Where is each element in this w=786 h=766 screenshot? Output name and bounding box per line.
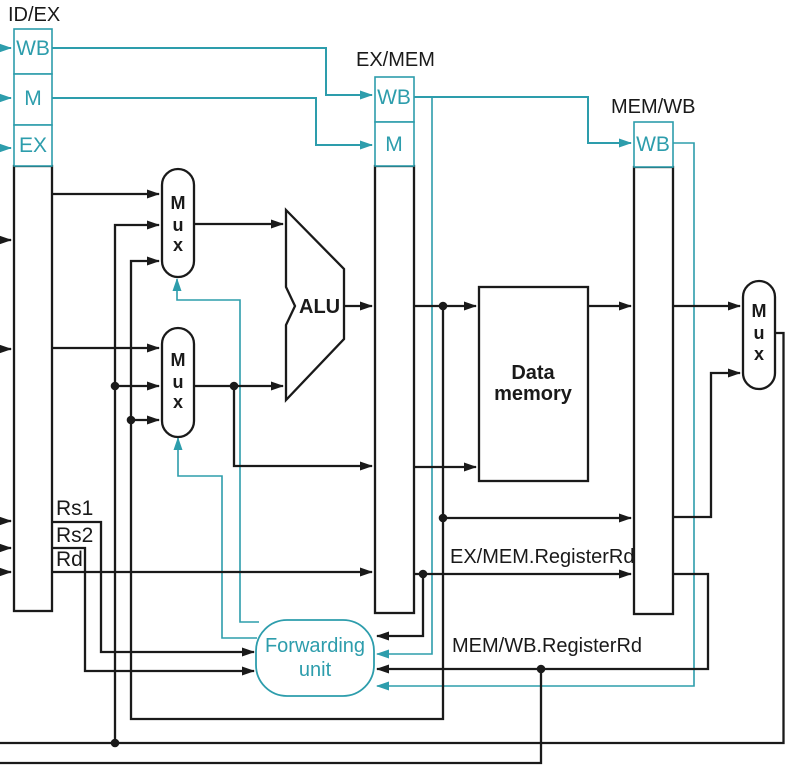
- wire: EX/MEM forward branch to Mux2: [131, 419, 159, 421]
- forwarding unit: [256, 620, 374, 696]
- svg-text:Rs2: Rs2: [56, 524, 93, 547]
- mux Mux1 (ALU input A): [162, 169, 194, 277]
- wire: Data memory read data to MEM/WB: [588, 305, 631, 307]
- svg-text:EX: EX: [19, 134, 47, 157]
- wire: ID/EX.WB to EX/MEM.WB (teal): [52, 48, 372, 95]
- wire: forwarding unit control to Mux1 (teal): [177, 279, 259, 622]
- svg-text:unit: unit: [299, 659, 332, 681]
- pipeline register EX/MEM: [375, 77, 414, 613]
- mux WB Mux (write-back): [743, 281, 775, 389]
- wire: forwarding unit control to Mux2 (teal): [178, 438, 257, 638]
- wire: Mux1 output to ALU: [194, 223, 283, 225]
- svg-text:M: M: [385, 133, 403, 156]
- junction: MEM/WB forward at bottom bus: [111, 739, 120, 748]
- wire: Mux2 output branch to EX/MEM store data: [234, 386, 372, 466]
- wire: Mux2 output to ALU: [194, 385, 283, 387]
- wire: ID/EX.M to EX/MEM.M (teal): [52, 98, 372, 145]
- wire: EX/MEM RegWrite to forwarding unit (teal): [377, 97, 432, 654]
- junction: EX/MEM.RegisterRd branch: [419, 570, 428, 579]
- svg-text:WB: WB: [377, 86, 411, 109]
- svg-text:Rs1: Rs1: [56, 497, 93, 520]
- svg-text:WB: WB: [636, 133, 670, 156]
- data memory: [479, 287, 588, 481]
- wire: EX/MEM forwarding path to muxes: [131, 261, 443, 719]
- wire: ID/EX read data 2 to Mux2: [52, 347, 159, 349]
- svg-text:u: u: [754, 323, 765, 343]
- ALU U1: [286, 210, 344, 400]
- svg-text:Rd: Rd: [56, 548, 83, 571]
- svg-text:x: x: [173, 392, 183, 412]
- svg-text:ID/EX: ID/EX: [8, 4, 60, 26]
- wire: EX/MEM.WB to MEM/WB.WB (teal): [414, 97, 631, 143]
- svg-text:u: u: [173, 215, 184, 235]
- svg-text:x: x: [754, 344, 764, 364]
- wire: input to ID/EX WB (teal): [0, 47, 11, 49]
- wire: register file input 2 to ID/EX: [0, 348, 11, 350]
- junction: Mux2 output branch: [230, 382, 239, 391]
- svg-text:MEM/WB: MEM/WB: [611, 96, 695, 118]
- svg-text:ALU: ALU: [299, 296, 340, 318]
- wire: EX/MEM ALU result to Data memory address: [414, 305, 476, 307]
- svg-text:x: x: [173, 235, 183, 255]
- wire: Rs1 input to ID/EX: [0, 520, 11, 522]
- wire: MEM/WB.RegisterRd to register file write port: [0, 669, 541, 763]
- wire: Rd to EX/MEM: [52, 571, 372, 573]
- wire: Rs1 to forwarding unit: [52, 522, 254, 652]
- wire: MEM/WB read data to WB Mux: [673, 305, 740, 307]
- svg-text:memory: memory: [494, 383, 573, 405]
- wire: Rs2 input to ID/EX: [0, 547, 11, 549]
- svg-text:Data: Data: [511, 362, 555, 384]
- svg-text:MEM/WB.RegisterRd: MEM/WB.RegisterRd: [452, 635, 642, 657]
- wire: MEM/WB forward branch to Mux2: [115, 385, 159, 387]
- junction: ALU result bypass branch at y518: [439, 514, 448, 523]
- junction: EX/MEM ALU result branch: [439, 302, 448, 311]
- junction: MEM/WB forward branch: [111, 382, 120, 391]
- wire: register file input 1 to ID/EX: [0, 239, 11, 241]
- wire: EX/MEM store data to Data memory write data: [414, 466, 476, 468]
- junction: EX/MEM forward branch: [127, 416, 136, 425]
- svg-text:M: M: [752, 301, 767, 321]
- wire: EX/MEM.RegisterRd to forwarding unit: [377, 574, 423, 636]
- svg-text:WB: WB: [16, 37, 50, 60]
- wire: MEM/WB RegWrite to forwarding unit (teal): [377, 143, 694, 686]
- wire: EX/MEM.RegisterRd to MEM/WB: [414, 573, 631, 575]
- wire: ID/EX read data 1 to Mux1: [52, 193, 159, 195]
- wire: ALU result bypass to MEM/WB: [443, 306, 631, 518]
- svg-text:EX/MEM.RegisterRd: EX/MEM.RegisterRd: [450, 546, 635, 568]
- svg-text:Forwarding: Forwarding: [265, 635, 365, 657]
- svg-text:M: M: [171, 350, 186, 370]
- svg-text:M: M: [24, 87, 42, 110]
- pipeline register MEM/WB: [634, 122, 673, 614]
- wire: MEM/WB.RegisterRd to forwarding unit: [377, 574, 708, 669]
- wire: ALU result to EX/MEM: [344, 305, 372, 307]
- wire: Rd input to ID/EX: [0, 571, 11, 573]
- wire: input to ID/EX EX (teal): [0, 147, 11, 149]
- wire: Rs2 to forwarding unit: [52, 548, 254, 671]
- wire: MEM/WB ALU result to WB Mux: [673, 373, 740, 517]
- svg-text:u: u: [173, 372, 184, 392]
- svg-text:EX/MEM: EX/MEM: [356, 49, 435, 71]
- wire: input to ID/EX M (teal): [0, 97, 11, 99]
- junction: MEM/WB.RegisterRd branch: [537, 665, 546, 674]
- mux Mux2 (ALU input B): [162, 328, 194, 437]
- wire: WB Mux output to register file and forward path: [0, 333, 784, 743]
- svg-text:M: M: [171, 193, 186, 213]
- wire: MEM/WB forward up path to Mux1: [115, 225, 159, 743]
- pipeline register ID/EX: [14, 29, 52, 611]
